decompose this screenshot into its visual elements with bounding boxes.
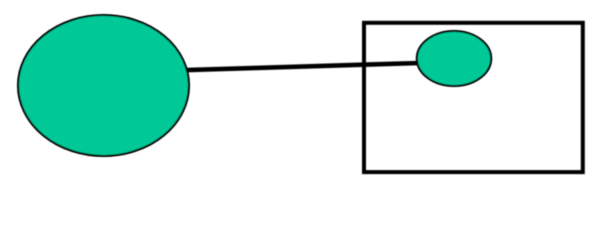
rectangle [364, 23, 583, 172]
large ellipse [18, 15, 189, 156]
connector line [182, 63, 420, 70]
small ellipse [417, 31, 491, 86]
